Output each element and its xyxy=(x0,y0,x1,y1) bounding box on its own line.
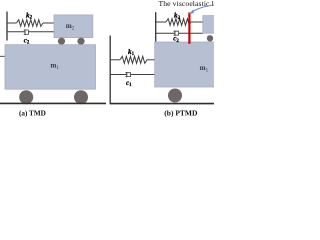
damper c2 (a) piston xyxy=(24,29,26,35)
wheel m1-left (a) xyxy=(19,90,33,104)
wire damper-to-mass (b lower) xyxy=(131,74,156,76)
wire damper line (a) xyxy=(7,31,24,33)
wheel m1 (b) xyxy=(168,89,182,103)
damper c1 (b) piston xyxy=(126,72,128,77)
damper c2 (b) piston xyxy=(174,31,176,36)
wire damper line (b lower) xyxy=(111,74,128,76)
wheel m2 (b) xyxy=(207,35,213,41)
wall (b upper) xyxy=(155,12,157,41)
damper c2 (a) cylinder xyxy=(24,30,29,34)
damper c2 (b) cylinder xyxy=(174,31,179,35)
ground (b) xyxy=(110,103,214,105)
wall (a) xyxy=(6,12,8,41)
wire spring-to-mass (b upper) xyxy=(191,21,203,23)
wire spring-to-mass (b lower) xyxy=(147,59,155,61)
svg-text:(a) TMD: (a) TMD xyxy=(19,109,46,117)
wire damper line (b upper) xyxy=(156,32,175,34)
spring k1 (b) xyxy=(120,56,147,63)
damper c1 (b) cylinder xyxy=(125,73,130,77)
spring k2 (b) xyxy=(166,19,191,26)
mass m1 (b) xyxy=(155,42,217,87)
mass m2 (a) xyxy=(54,15,93,38)
svg-text:(b) PTMD: (b) PTMD xyxy=(164,109,198,118)
wire damper-to-mass (b upper) xyxy=(179,32,203,34)
viscoelastic layer (red) xyxy=(188,13,190,44)
spring k2 (a) xyxy=(17,20,44,27)
wall (b lower) xyxy=(109,36,111,105)
wire damper-to-mass (a) xyxy=(28,31,54,33)
wheel m1-right (a) xyxy=(74,90,88,104)
mass m1 (a) xyxy=(5,45,96,89)
wire spring line (b lower) xyxy=(111,59,120,61)
annotation arrow xyxy=(192,5,214,12)
wheel m2-left (a) xyxy=(58,38,65,45)
wire spring line (b upper) xyxy=(156,21,166,23)
wheel m2-right (a) xyxy=(77,38,84,45)
ground (a) xyxy=(0,102,106,104)
annotation arrowhead xyxy=(189,10,193,14)
wire spring-to-mass (a) xyxy=(43,22,54,24)
wire stub at left edge xyxy=(0,55,5,57)
wire spring line (a) xyxy=(7,22,16,24)
mass m2 (b) xyxy=(203,16,218,34)
